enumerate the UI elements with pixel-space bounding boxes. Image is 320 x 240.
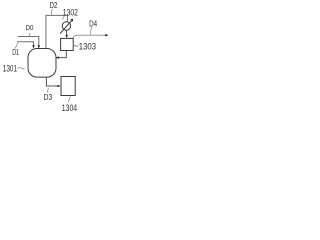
svg-text:1302: 1302 (63, 7, 78, 17)
svg-text:D1: D1 (12, 48, 19, 57)
svg-text:1304: 1304 (62, 103, 77, 113)
svg-text:D2: D2 (50, 0, 58, 10)
svg-text:D0: D0 (26, 23, 34, 32)
svg-text:1303: 1303 (79, 41, 96, 51)
svg-text:1301: 1301 (3, 64, 17, 74)
svg-text:D3: D3 (44, 92, 53, 102)
svg-text:D4: D4 (89, 19, 97, 29)
